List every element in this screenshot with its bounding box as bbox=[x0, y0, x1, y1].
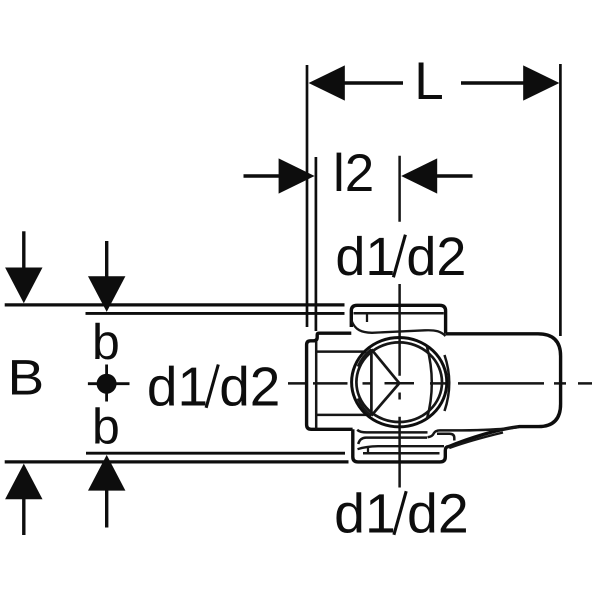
cone diagonal lower bbox=[371, 383, 399, 415]
b arrow top (down) bbox=[88, 241, 125, 312]
dimension l2 extension line left bbox=[315, 157, 318, 331]
outlet lower-right line bbox=[437, 434, 454, 441]
ball inner bbox=[356, 342, 442, 422]
right socket arc bbox=[427, 346, 432, 420]
outlet jog and upper-right line bbox=[428, 427, 519, 437]
bottom collar top surface line bbox=[358, 446, 445, 449]
dimension L extension line right bbox=[559, 64, 562, 336]
dimension L extension line left bbox=[306, 65, 309, 327]
b reference line bottom (inner) bbox=[86, 452, 345, 455]
shoulder wave top bbox=[351, 320, 445, 336]
outlet lower-left line bbox=[358, 438, 427, 444]
top collar outline bbox=[351, 305, 445, 334]
bottom collar lip line bbox=[363, 452, 440, 455]
B reference line bottom (outer) bbox=[5, 460, 349, 463]
left socket depth line bbox=[315, 342, 318, 429]
svg-text:d1: d1 bbox=[334, 483, 396, 545]
bottom collar stub bbox=[367, 446, 369, 452]
svg-text:d1: d1 bbox=[147, 356, 208, 418]
svg-text:d2: d2 bbox=[406, 227, 466, 287]
B reference line top (outer) bbox=[5, 303, 345, 306]
svg-text:L: L bbox=[414, 52, 443, 111]
svg-text:b: b bbox=[92, 398, 120, 454]
dimension L arrow right bbox=[461, 65, 559, 100]
right body outline bbox=[446, 334, 561, 447]
vertical centerline of branch bbox=[398, 156, 401, 488]
label d1/d2 top bbox=[335, 227, 466, 287]
B arrow top (down) bbox=[5, 231, 42, 303]
svg-text:d2: d2 bbox=[407, 483, 469, 545]
bottom collar outline bbox=[353, 429, 449, 462]
outlet upper-left line bbox=[357, 430, 427, 433]
svg-text:l2: l2 bbox=[333, 144, 374, 203]
svg-text:d1: d1 bbox=[335, 227, 395, 287]
horizontal centerline bbox=[288, 382, 592, 385]
cone chamfer top bbox=[358, 349, 372, 366]
center mark cross bbox=[88, 365, 130, 402]
left socket outline bbox=[307, 333, 353, 429]
left socket bore line top bbox=[317, 350, 366, 353]
b reference line top (inner) bbox=[86, 312, 345, 315]
svg-text:b: b bbox=[92, 314, 120, 370]
dimension L arrow left bbox=[309, 65, 403, 100]
label d1/d2 left bbox=[147, 356, 280, 418]
cone chord bbox=[370, 349, 373, 415]
label d1/d2 bottom bbox=[334, 483, 469, 545]
ball seat arc right bbox=[445, 355, 450, 411]
top collar lip line bbox=[354, 312, 444, 315]
dimension l2 arrow right bbox=[401, 158, 472, 193]
B arrow bottom (up) bbox=[5, 464, 42, 535]
dimension l2 arrow left bbox=[244, 158, 315, 193]
svg-text:B: B bbox=[8, 350, 45, 406]
svg-text:d2: d2 bbox=[219, 356, 280, 418]
swept inner line bbox=[449, 433, 503, 449]
cone chamfer bottom bbox=[358, 399, 372, 416]
left socket bore line bottom bbox=[317, 414, 366, 417]
center mark dot bbox=[97, 374, 117, 394]
ball outer bbox=[352, 338, 447, 427]
cone diagonal upper bbox=[371, 349, 399, 383]
shoulder stub top bbox=[366, 315, 368, 323]
b arrow bottom (up) bbox=[88, 455, 125, 528]
